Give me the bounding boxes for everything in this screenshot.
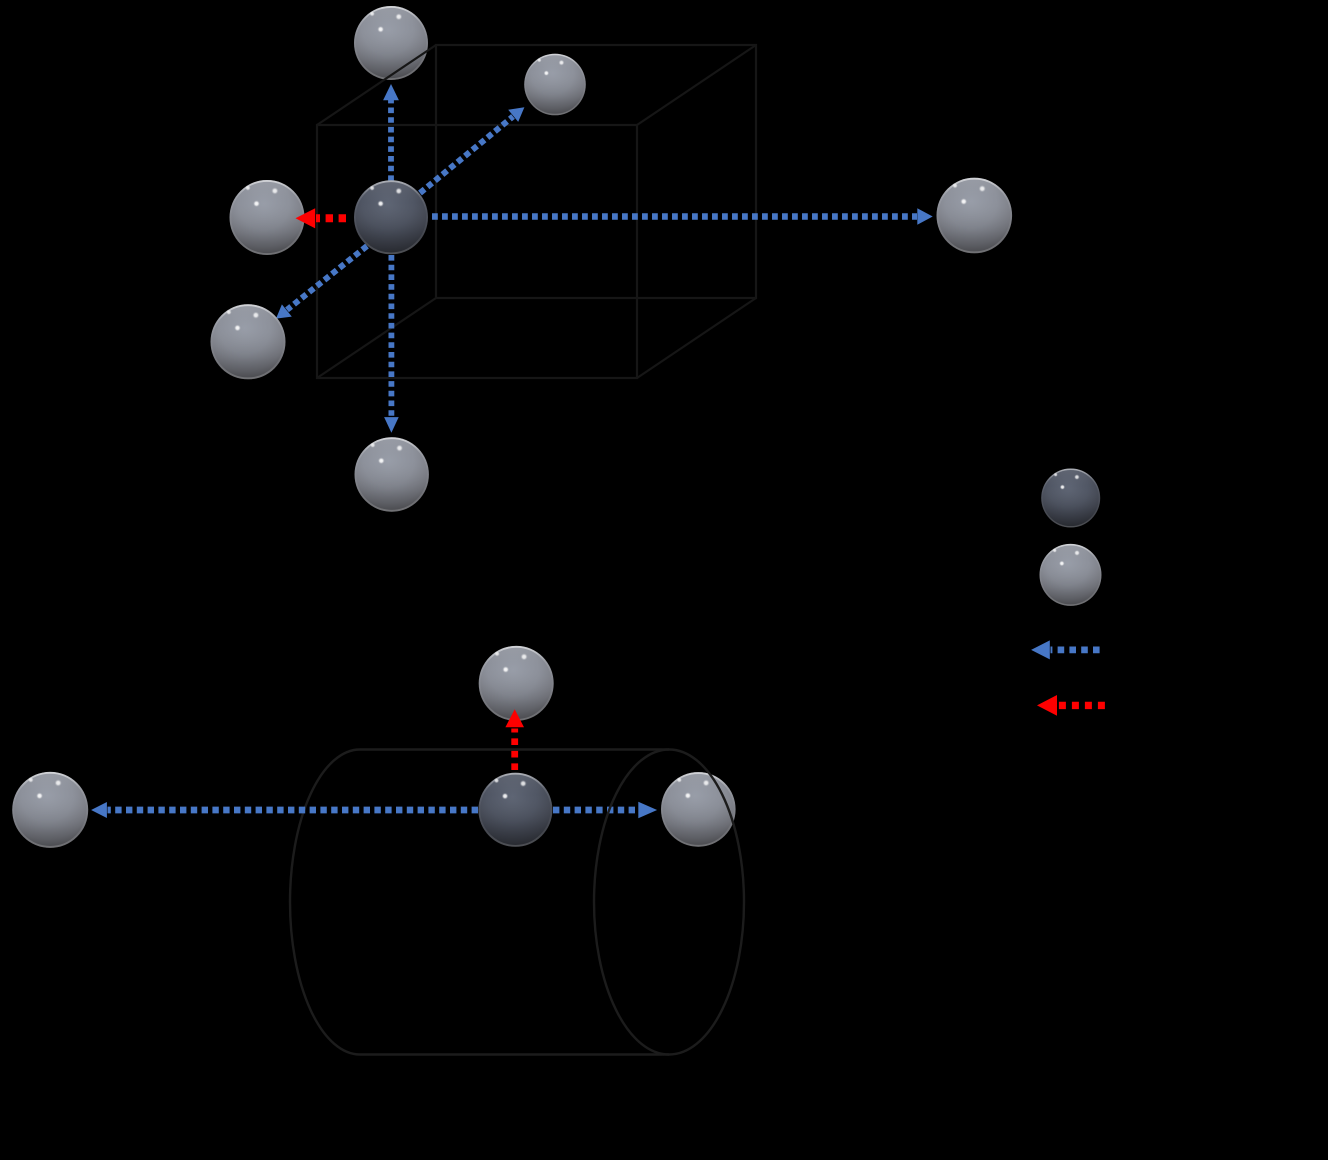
- sphere above cylinder (rejected position): [479, 646, 554, 721]
- arrow blue up (lattice +z): [383, 84, 399, 181]
- cylinder left cap arc: [290, 750, 360, 1055]
- arrow blue diagonal down-left (lattice -y): [276, 246, 367, 319]
- arrow blue long right (swap move to far sphere): [432, 208, 933, 225]
- sphere far left of cylinder: [12, 772, 88, 848]
- legend dark sphere: [1041, 469, 1100, 528]
- cube back face: [436, 45, 756, 298]
- sphere lower-left (lattice site, front direction): [211, 304, 286, 379]
- arrow blue down (lattice -z): [384, 255, 399, 433]
- legend blue arrow (accepted move): [1031, 640, 1100, 659]
- sphere dark on cylinder (moving particle): [478, 773, 552, 847]
- cube edge front-top-left to back-top-left (drawn over sphere): [317, 45, 436, 125]
- arrow blue diagonal up-right (lattice +y): [420, 107, 524, 193]
- cube edge front-bottom-right to back-bottom-right: [637, 298, 756, 378]
- cylinder top line: [360, 748, 669, 750]
- arrow blue right (cylinder move right): [553, 802, 657, 819]
- cube front face: [317, 125, 637, 378]
- cube edge front-top-right to back-top-right: [637, 45, 756, 125]
- sphere central dark (moving particle in cube): [354, 180, 428, 254]
- arrow red up (cylinder rejected move): [505, 709, 524, 770]
- cylinder right cap ellipse (drawn over sphere): [594, 750, 744, 1055]
- legend light sphere: [1040, 544, 1102, 606]
- cylinder bottom line: [360, 1053, 669, 1055]
- arrow blue long left (cylinder move left): [91, 802, 478, 818]
- sphere left (lattice site left): [230, 180, 305, 255]
- legend red arrow (rejected move): [1037, 695, 1105, 716]
- arrow red left (rejected lattice move): [296, 208, 347, 228]
- sphere right on cylinder rim: [661, 772, 736, 847]
- sphere bottom (lattice site below cube): [355, 437, 429, 511]
- sphere upper-right (lattice site, back direction): [524, 54, 586, 116]
- cube edge front-bottom-left to back-bottom-left: [317, 298, 436, 378]
- sphere top (lattice site above cube): [354, 6, 428, 80]
- sphere far right (swap destination): [937, 178, 1013, 254]
